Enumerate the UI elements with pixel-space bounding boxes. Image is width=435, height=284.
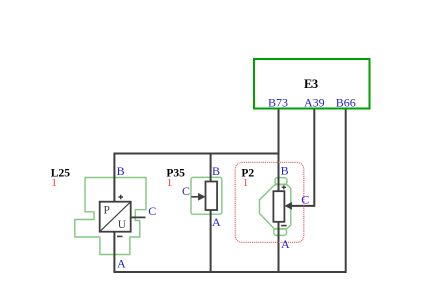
svg-text:A39: A39 <box>304 96 325 110</box>
svg-text:A: A <box>117 256 126 270</box>
svg-text:C: C <box>301 193 309 207</box>
wire: B73 vertical through P2 <box>278 109 280 272</box>
L25 C stub <box>131 216 146 218</box>
svg-text:B73: B73 <box>268 96 288 110</box>
svg-text:B: B <box>117 164 125 178</box>
svg-text:B: B <box>212 164 220 178</box>
wire: A39 vertical and wiper feed <box>291 109 314 206</box>
component L25 P/U transducer body <box>100 202 131 232</box>
highlight P2 top tab <box>275 178 287 185</box>
L25 plus mark <box>118 195 123 200</box>
svg-text:A: A <box>281 237 290 251</box>
wire: top bus + left vertical + bottom bus + B66 vertical <box>114 109 345 272</box>
highlight P2 bottom tab <box>274 229 287 236</box>
wire: P35 vertical <box>210 154 212 273</box>
svg-text:A: A <box>212 215 221 229</box>
svg-text:1: 1 <box>51 177 57 189</box>
P2 dotted selection box <box>235 162 304 242</box>
svg-text:C: C <box>148 204 156 218</box>
svg-text:C: C <box>182 184 190 198</box>
highlight outline P2 body (under wires) <box>260 185 291 230</box>
highlight outline L25 <box>75 178 146 255</box>
svg-text:1: 1 <box>243 177 249 189</box>
P35 wiper arrow <box>191 196 198 198</box>
P2 wiper arrowhead <box>285 202 292 209</box>
svg-text:P: P <box>104 205 110 217</box>
svg-text:B66: B66 <box>336 96 356 110</box>
P2 plus mark <box>282 185 286 189</box>
svg-text:1: 1 <box>167 177 173 189</box>
svg-text:E3: E3 <box>304 77 318 91</box>
potentiometer P35 body <box>206 182 218 211</box>
L25 minus mark <box>117 235 123 237</box>
svg-text:U: U <box>118 219 127 231</box>
svg-text:B: B <box>281 164 289 178</box>
ECU E3 box <box>254 59 370 109</box>
highlight outline P35 (under wires) <box>191 177 222 214</box>
potentiometer P2 body <box>273 191 284 222</box>
P2 minus mark <box>281 225 287 227</box>
